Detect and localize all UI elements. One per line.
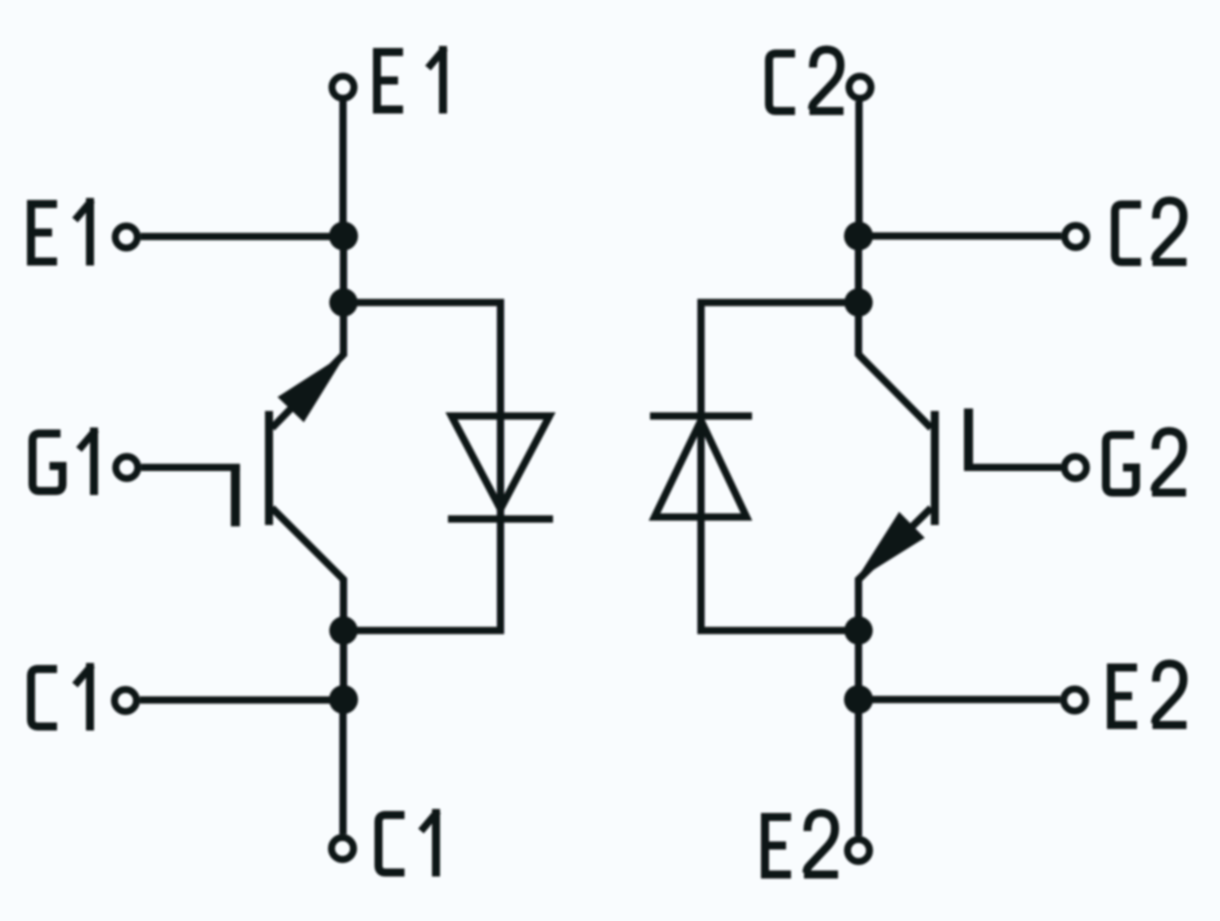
label C2 right: [1115, 201, 1187, 263]
node D1 anode tap: [329, 616, 357, 644]
terminal E2 right: [1064, 689, 1086, 711]
node D1 cathode tap: [329, 288, 357, 316]
transistor Q1 gate bar: [231, 465, 240, 527]
terminal C2 right: [1065, 226, 1087, 248]
terminal C1 left: [115, 690, 137, 712]
node D2 cathode tap: [844, 288, 872, 316]
wire rail C2 to diode tap: [855, 236, 862, 303]
terminal C2 top: [849, 76, 871, 98]
wire G2 lead: [964, 464, 1061, 471]
wire E2 bottom lead: [855, 700, 862, 837]
transistor Q2 emitter lead: [859, 508, 932, 631]
wire diode D2 branch: [701, 303, 859, 631]
wire rail to Q2 collector bend: [855, 303, 862, 357]
terminal E2 bottom: [848, 840, 870, 862]
label E1 top: [377, 46, 445, 114]
transistor Q2 body bar: [931, 411, 939, 525]
label E1 left: [31, 198, 92, 266]
terminal E1 top: [332, 76, 354, 98]
diode D2 cathode bar: [650, 412, 752, 419]
label G1: [33, 428, 97, 496]
terminal C1 bottom: [332, 838, 354, 860]
transistor Q1 collector lead: [272, 508, 344, 631]
wire E2 right lead: [859, 696, 1061, 703]
terminal G1: [116, 457, 138, 479]
label E2 bottom: [765, 813, 838, 875]
transistor Q1 body bar: [265, 411, 273, 525]
wire rail diode tap to E2 junction: [855, 631, 862, 700]
transistor Q1 emitter lead: [272, 355, 344, 429]
wire G1 lead: [141, 464, 240, 471]
transistor Q2 gate bar: [964, 409, 973, 471]
label G2: [1106, 431, 1186, 493]
diode D1 cathode bar: [448, 515, 553, 522]
wire E1 top lead: [339, 102, 346, 237]
label E2 right: [1111, 664, 1187, 726]
wire C1 bottom lead: [339, 700, 346, 835]
diode D1 triangle: [452, 416, 550, 509]
node C2 junction: [844, 222, 873, 251]
node E2 junction: [844, 685, 873, 714]
diode D2 triangle: [655, 421, 747, 518]
transistor Q2 collector lead: [859, 355, 932, 429]
label C1 left: [31, 663, 92, 731]
wire rail E1 to diode tap: [340, 236, 347, 303]
transistor Q2 emitter arrow: [859, 514, 924, 579]
wire E1 left lead: [141, 233, 344, 240]
node E1 junction: [329, 222, 358, 251]
wire C2 top lead: [855, 102, 862, 237]
wire rail to Q1 emitter bend: [340, 303, 347, 357]
terminal G2: [1064, 457, 1086, 479]
terminal E1 left: [115, 226, 137, 248]
label C1 bottom: [379, 809, 439, 877]
node D2 anode tap: [844, 616, 872, 644]
transistor Q1 emitter arrow: [279, 356, 343, 421]
wire C2 right lead: [858, 232, 1061, 239]
wire C1 left lead: [140, 696, 344, 703]
wire diode D1 branch: [344, 303, 501, 631]
label C2 top: [769, 50, 844, 112]
wire rail diode tap to C1 junction: [340, 631, 347, 700]
node C1 junction: [329, 685, 358, 714]
